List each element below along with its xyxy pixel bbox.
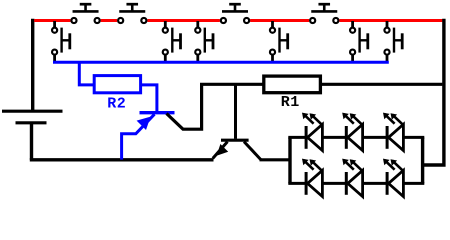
pushbutton S8: [270, 21, 288, 64]
transistor Q1 emitter arrow (PNP): [137, 117, 151, 130]
LED D4: [302, 159, 322, 197]
wire: red V+ bus segment 2: [101, 19, 117, 22]
pushbutton S4: [310, 4, 338, 23]
wire: LED block right rail: [421, 137, 424, 183]
wire: red V+ bus segment 1: [34, 19, 70, 22]
battery B1 negative plate: [16, 121, 47, 124]
pushbutton S5: [52, 21, 70, 64]
pushbutton S6: [163, 21, 181, 64]
resistor R1: [264, 76, 321, 93]
resistor R2: [94, 76, 140, 93]
wire: right rail from V+ bus down to LED block: [423, 19, 444, 165]
wire: blue switch bus: [53, 61, 389, 64]
wire: R2 to Q1 base: [140, 85, 157, 112]
wire: R1 to right rail: [320, 83, 442, 86]
wire: LED row 1 segments: [288, 136, 306, 139]
pushbutton S9: [350, 21, 368, 64]
wire: Q2 collector to LED block: [260, 158, 292, 161]
transistor Q2 emitter arrow (NPN): [217, 144, 229, 156]
LED D2: [342, 113, 362, 151]
transistor Q2 emitter: [213, 142, 228, 159]
transistor Q2 base bar: [221, 139, 249, 142]
wire: LED row 2 segments: [288, 182, 306, 185]
battery B1 positive plate: [2, 110, 63, 113]
wire: battery negative down to bottom rail: [30, 123, 33, 160]
pushbutton S2: [118, 4, 146, 23]
LED D5: [342, 159, 362, 197]
wire: node A down to Q2 base: [234, 84, 237, 139]
LED D1: [302, 113, 322, 151]
wire: red V+ bus segment 5: [339, 19, 442, 22]
LED D6: [383, 159, 403, 197]
wire: red V+ bus segment 3: [147, 19, 220, 22]
pushbutton S10: [384, 21, 402, 64]
pushbutton S1: [71, 4, 99, 23]
pushbutton S7: [195, 21, 213, 64]
pushbutton S3: [221, 4, 249, 23]
transistor Q2 collector: [244, 142, 261, 160]
wire: LED block left rail: [288, 137, 291, 183]
wire: node A to R1: [200, 83, 265, 86]
wire: red V+ bus segment 4: [250, 19, 309, 22]
wire: blue bus down to R2: [79, 63, 94, 85]
svg-text:R2: R2: [107, 96, 126, 113]
LED D3: [383, 113, 403, 151]
svg-text:R1: R1: [281, 94, 300, 111]
transistor Q1 emitter: [122, 114, 155, 159]
wire: left vertical from V+ bus down to battery: [31, 19, 34, 111]
wire: bottom ground rail to Q2 emitter: [30, 158, 214, 161]
wire: Q1 collector up to node A: [167, 84, 202, 129]
transistor Q1 base bar: [140, 111, 175, 114]
